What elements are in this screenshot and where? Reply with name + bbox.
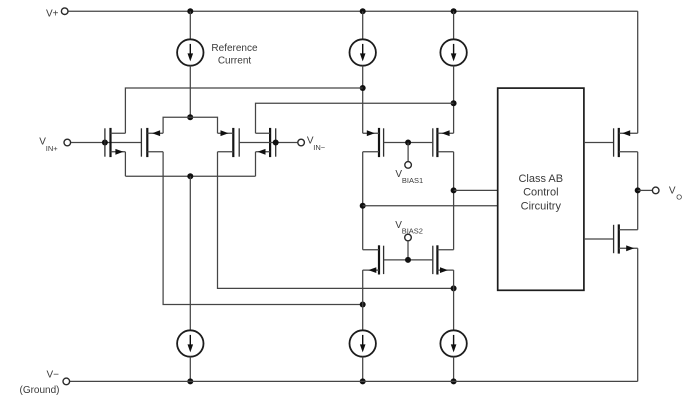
transistor M6 (PMOS cascode, VBIAS1 right) [433, 128, 454, 157]
label: VO [669, 185, 682, 201]
transistor M3 (PMOS, gate VIN-) [218, 128, 240, 157]
wire: column A to Class AB box (lower stub) [363, 205, 498, 207]
wire: column A, M5 drain down to M7 drain [362, 152, 364, 250]
label: Reference Current [211, 43, 258, 67]
wire: NMOS tail down to current source 4 [189, 176, 191, 330]
wire: NMOS pair tail rail [125, 175, 255, 177]
wire: M2 drain down and across to column A [163, 152, 363, 305]
svg-text:Current: Current [218, 56, 252, 67]
junction: M1 drain joins column A [360, 85, 366, 91]
label: V- (Ground) [19, 369, 59, 396]
terminal: VBIAS1 [405, 162, 412, 169]
current source 3 (right cascode branch) [440, 39, 466, 65]
wire: VIN- input to M3/M4 gates [239, 142, 297, 144]
wire: V+ rail down to M9 source [637, 11, 639, 133]
current source 4 (NMOS tail bias) [177, 330, 203, 356]
junction: VIN+ wire at M1 gate [102, 140, 108, 146]
wire: M7 source down to current source 5 [362, 270, 364, 330]
svg-text:V: V [669, 185, 676, 196]
Class AB control box [498, 88, 584, 290]
wire: M7-M8 gate link [384, 259, 433, 261]
current source 5 (left branch sink) [350, 330, 376, 356]
terminal: V- (Ground) [63, 378, 70, 385]
svg-text:O: O [676, 193, 682, 202]
transistor M2 (PMOS, gate VIN+) [141, 128, 163, 157]
wire: current source 2 to cascode M5 source [362, 66, 364, 134]
terminal: VO [652, 187, 659, 194]
label: VIN- [307, 136, 326, 152]
junction: V- rail / current source 6 [451, 378, 457, 384]
current source 6 (right branch sink) [440, 330, 466, 356]
wire: M1 drain up and across to column A [125, 88, 362, 133]
wire: V+ rail to current source 2 [362, 11, 364, 39]
svg-text:V+: V+ [46, 8, 59, 19]
junction: V- rail / current source 5 [360, 378, 366, 384]
svg-text:Control: Control [523, 187, 558, 199]
junction: column B to Class AB input [451, 187, 457, 193]
svg-text:BIAS1: BIAS1 [402, 176, 423, 185]
svg-text:Circuitry: Circuitry [521, 201, 562, 213]
svg-text:Class AB: Class AB [518, 173, 563, 185]
wire: M5-M6 gate link [384, 142, 433, 144]
svg-text:IN−: IN− [313, 143, 326, 152]
wire: V+ rail to reference current source [189, 11, 191, 39]
wire: column B, M6 drain down to M8 drain [453, 152, 455, 250]
wire: M8 source down to current source 6 [453, 270, 455, 330]
svg-text:IN+: IN+ [46, 144, 59, 153]
svg-text:(Ground): (Ground) [19, 385, 59, 396]
wire: column B to Class AB box (upper stub) [454, 189, 498, 191]
wire: VBIAS1 node to terminal [407, 143, 409, 162]
current source 2 (left cascode branch) [350, 39, 376, 65]
junction: M3 drain joins column B [451, 285, 457, 291]
V+ supply rail [68, 10, 638, 12]
wire: PMOS pair tail rail [163, 117, 217, 133]
current source: reference current [177, 39, 203, 65]
V+ terminal [61, 8, 68, 15]
junction: M2 drain joins column A [360, 302, 366, 308]
label: VIN+ [39, 136, 58, 153]
junction: column A to Class AB input [360, 203, 366, 209]
label: Class AB Control Circuitry [518, 173, 563, 213]
transistor M8 (NMOS cascode, VBIAS2 right) [433, 245, 454, 274]
wire: current source 5 to V- rail [362, 357, 364, 382]
svg-text:BIAS2: BIAS2 [402, 227, 423, 236]
transistor M7 (NMOS cascode, VBIAS2 left) [363, 245, 384, 274]
wire: box to M10 gate [584, 238, 614, 240]
junction: V+ rail / current source 2 [360, 8, 366, 14]
wire: M3 drain down and across to column B [218, 152, 454, 289]
junction: VBIAS1 gate node [405, 140, 411, 146]
junction: VBIAS2 gate node [405, 257, 411, 263]
terminal: VBIAS2 [405, 234, 412, 241]
wire: M4 source down to NMOS tail [255, 152, 257, 176]
wire: VBIAS2 terminal to gate node [407, 241, 409, 260]
transistor M1 (NMOS, gate VIN+) [105, 128, 126, 157]
terminal: VIN+ [64, 139, 71, 146]
junction: V+ rail / reference current source [187, 8, 193, 14]
wire: V+ rail to current source 3 [453, 11, 455, 39]
transistor M9 (PMOS output) [614, 128, 638, 157]
wire: output node to VO terminal [638, 189, 653, 191]
junction: output node [635, 187, 641, 193]
svg-text:Reference: Reference [211, 43, 258, 54]
node: PMOS pair tail junction [187, 114, 193, 120]
node: NMOS pair tail junction [187, 173, 193, 179]
wire: current source 6 to V- rail [453, 357, 455, 382]
svg-text:V−: V− [46, 369, 59, 380]
terminal: VIN- [298, 139, 305, 146]
label: VBIAS2 [395, 220, 423, 236]
label: VBIAS1 [395, 169, 423, 185]
wire: M1 source down to NMOS tail [124, 152, 126, 176]
wire: M10 source down to V- rail [637, 248, 639, 381]
junction: V+ rail / current source 3 [451, 8, 457, 14]
junction: M4 drain joins column B [451, 100, 457, 106]
wire: reference current source to PMOS tail node [189, 66, 191, 118]
junction: V- rail / current source 4 [187, 378, 193, 384]
wire: VIN+ input to M1/M2 gates [71, 142, 141, 144]
transistor M5 (PMOS cascode, VBIAS1 left) [363, 128, 384, 157]
junction: VIN- wire at M4 gate [273, 140, 279, 146]
wire: current source 4 to V- rail [189, 357, 191, 382]
transistor M4 (NMOS, gate VIN-) [256, 128, 276, 157]
V- supply rail [70, 380, 638, 382]
transistor M10 (NMOS output) [614, 224, 638, 253]
wire: M9 drain down to output node [637, 152, 639, 230]
wire: box to M9 gate [584, 142, 614, 144]
wire: current source 3 to cascode M6 source [453, 66, 455, 134]
wire: M4 drain up and across to column B [256, 103, 454, 133]
